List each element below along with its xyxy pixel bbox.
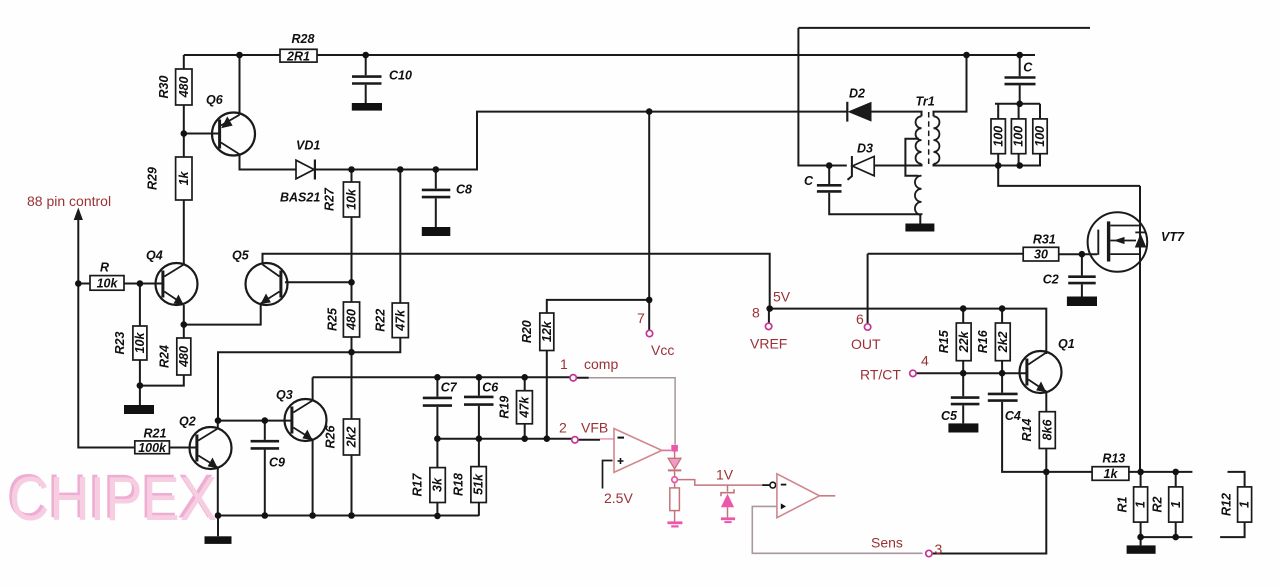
svg-text:10k: 10k <box>133 332 147 354</box>
svg-text:30: 30 <box>1034 248 1048 262</box>
svg-text:480: 480 <box>345 309 359 331</box>
svg-text:RT/CT: RT/CT <box>860 367 901 383</box>
svg-text:Q4: Q4 <box>146 249 163 263</box>
svg-text:R31: R31 <box>1033 233 1056 247</box>
svg-text:2k2: 2k2 <box>996 331 1010 353</box>
svg-text:3k: 3k <box>431 477 445 492</box>
svg-text:3: 3 <box>935 541 943 557</box>
svg-text:1k: 1k <box>1104 467 1119 481</box>
svg-text:R21: R21 <box>144 426 167 440</box>
svg-text:R14: R14 <box>1020 418 1034 441</box>
svg-text:2: 2 <box>559 420 567 436</box>
svg-text:Q5: Q5 <box>232 249 250 263</box>
svg-text:12k: 12k <box>540 320 554 342</box>
svg-text:VFB: VFB <box>581 420 608 436</box>
svg-text:OUT: OUT <box>851 336 881 352</box>
svg-text:CHIPEX: CHIPEX <box>9 465 217 534</box>
svg-text:8k6: 8k6 <box>1040 419 1054 441</box>
svg-text:7: 7 <box>637 310 645 326</box>
svg-text:VD1: VD1 <box>296 139 320 153</box>
svg-text:R19: R19 <box>498 396 512 419</box>
svg-text:10k: 10k <box>97 276 119 290</box>
svg-text:C4: C4 <box>1005 409 1021 423</box>
svg-text:1: 1 <box>560 356 568 372</box>
svg-text:Vcc: Vcc <box>651 342 674 358</box>
svg-text:R23: R23 <box>113 331 127 354</box>
svg-text:Q6: Q6 <box>206 93 224 107</box>
svg-text:R28: R28 <box>292 32 315 46</box>
svg-text:C: C <box>804 174 814 188</box>
svg-text:8: 8 <box>752 305 760 321</box>
svg-text:Q3: Q3 <box>276 388 293 402</box>
svg-text:6: 6 <box>856 311 864 327</box>
svg-text:VT7: VT7 <box>1161 230 1185 244</box>
svg-text:R16: R16 <box>976 329 990 353</box>
svg-text:Q1: Q1 <box>1058 337 1075 351</box>
svg-text:1: 1 <box>1134 501 1148 508</box>
svg-text:2.5V: 2.5V <box>604 490 633 506</box>
svg-text:BAS21: BAS21 <box>280 191 320 205</box>
svg-text:R17: R17 <box>411 472 425 496</box>
svg-text:R: R <box>100 260 109 274</box>
svg-text:10k: 10k <box>345 188 359 210</box>
svg-text:88 pin control: 88 pin control <box>27 193 111 209</box>
svg-text:VREF: VREF <box>750 336 787 352</box>
svg-text:Sens: Sens <box>871 535 903 551</box>
svg-text:D3: D3 <box>857 142 873 156</box>
svg-text:22k: 22k <box>957 330 971 353</box>
svg-text:R30: R30 <box>157 75 171 98</box>
svg-text:C8: C8 <box>456 183 472 197</box>
svg-text:5V: 5V <box>773 289 791 305</box>
svg-text:R25: R25 <box>326 307 340 331</box>
svg-text:R2: R2 <box>1150 496 1164 512</box>
svg-text:C9: C9 <box>269 456 285 470</box>
svg-text:C6: C6 <box>482 381 499 395</box>
svg-text:D2: D2 <box>849 87 865 101</box>
svg-text:R24: R24 <box>158 345 172 368</box>
svg-text:R22: R22 <box>373 309 387 332</box>
svg-text:47k: 47k <box>393 309 407 332</box>
svg-text:comp: comp <box>584 356 618 372</box>
svg-text:R18: R18 <box>452 473 466 496</box>
svg-text:1: 1 <box>1169 501 1183 508</box>
svg-text:51k: 51k <box>472 473 486 495</box>
svg-text:Q2: Q2 <box>179 415 196 429</box>
svg-text:4: 4 <box>921 353 929 369</box>
svg-text:C2: C2 <box>1043 273 1059 287</box>
svg-text:C: C <box>1023 61 1033 75</box>
svg-text:C5: C5 <box>941 409 958 423</box>
svg-text:100k: 100k <box>138 441 167 455</box>
svg-text:R1: R1 <box>1115 496 1129 512</box>
svg-text:R13: R13 <box>1102 451 1125 465</box>
svg-text:R20: R20 <box>520 320 534 343</box>
svg-text:R12: R12 <box>1219 493 1233 516</box>
svg-text:C10: C10 <box>389 69 412 83</box>
svg-text:1V: 1V <box>716 467 734 483</box>
svg-text:480: 480 <box>177 346 191 368</box>
svg-text:100: 100 <box>1033 126 1047 147</box>
svg-text:Tr1: Tr1 <box>916 95 935 109</box>
svg-text:C7: C7 <box>441 381 458 395</box>
svg-text:100: 100 <box>1012 126 1026 147</box>
svg-text:47k: 47k <box>518 396 532 419</box>
svg-text:2k2: 2k2 <box>345 427 359 449</box>
svg-text:100: 100 <box>991 126 1005 147</box>
svg-text:1k: 1k <box>177 171 191 186</box>
svg-text:2R1: 2R1 <box>286 49 310 63</box>
svg-text:480: 480 <box>177 77 191 99</box>
svg-text:R15: R15 <box>937 329 951 353</box>
svg-text:R29: R29 <box>145 167 159 190</box>
svg-text:1: 1 <box>1238 501 1252 508</box>
svg-text:R27: R27 <box>323 187 337 211</box>
